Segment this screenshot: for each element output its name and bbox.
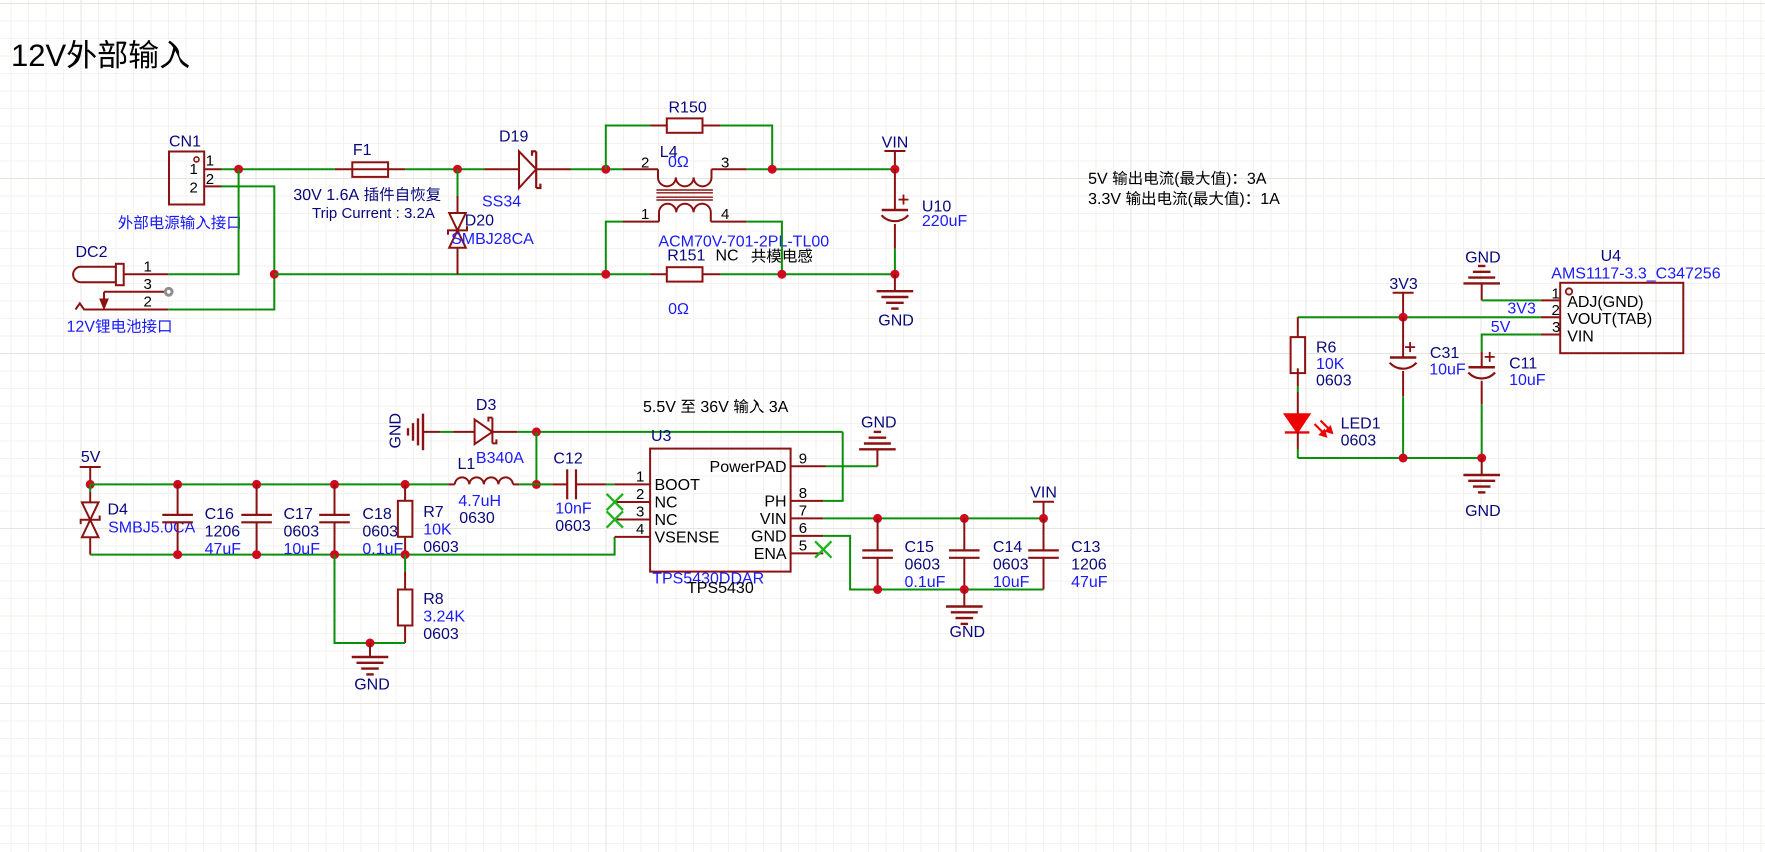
pin number 1 of L4 [641,206,649,223]
CN1 pin 1 [190,153,222,179]
value 0603 of R6 [1316,373,1352,390]
value SMBJ28CA [451,231,534,248]
svg-text:C18: C18 [362,506,391,523]
led LED1 [1285,414,1333,458]
svg-text:220uF: 220uF [922,213,968,230]
label U3 [651,428,672,445]
svg-text:ENA: ENA [754,546,787,563]
value 0603 of C15 [905,557,941,574]
svg-text:2: 2 [636,486,644,503]
svg-text:D19: D19 [499,129,528,146]
svg-text:R8: R8 [423,591,444,608]
svg-text:8: 8 [799,485,807,502]
U4 pin 3 VIN [1541,319,1594,346]
junction C15 bottom [873,585,882,594]
svg-text:0603: 0603 [555,518,591,535]
svg-text:GND: GND [354,677,390,694]
svg-text:10uF: 10uF [1509,372,1546,389]
svg-text:0.1uF: 0.1uF [362,541,403,558]
note 30V 1.6A 插件自恢复 [294,187,441,201]
wire R150 bypass loop [606,126,772,170]
label 外部电源输入接口 [118,215,240,229]
note 5V 输出电流(最大值)：3A [1089,171,1267,187]
value 10uF of C17 [284,541,321,558]
svg-text:9: 9 [799,450,807,467]
svg-text:VIN: VIN [760,511,787,528]
svg-text:10uF: 10uF [284,541,321,558]
svg-text:D3: D3 [476,397,497,414]
value 4.7uH [458,493,501,510]
capacitor U10 220uF polarized [882,169,909,272]
svg-text:0603: 0603 [362,524,398,541]
capacitor C14 [949,518,980,589]
junction C18 top [330,480,339,489]
op-amp U3 TPS5430 body [650,449,791,572]
junction 5V label [86,480,95,489]
wire CN1 pin1 to F1 [222,168,335,170]
value B340A [476,450,524,467]
connector DC2 barrel jack body [73,264,124,285]
label R150 [669,100,707,117]
label C14 [993,539,1022,556]
svg-text:1: 1 [206,153,214,170]
label DC2 [76,244,108,261]
label C18 [362,506,391,523]
svg-text:D4: D4 [108,502,129,519]
value 10nF [555,501,592,518]
U3 pin 9 PowerPAD [710,450,826,476]
label C31 [1430,345,1459,362]
svg-text:5V: 5V [81,449,101,466]
junction C13 top [1039,514,1048,523]
label C11 [1509,355,1537,372]
svg-text:C11: C11 [1509,355,1537,372]
ground above PowerPAD [859,432,896,466]
junction at CN1 pin1 [234,165,243,174]
svg-text:2: 2 [1552,302,1560,319]
svg-text:10nF: 10nF [555,501,592,518]
resistor R6 [1291,317,1306,414]
svg-text:F1: F1 [353,142,372,159]
value 0.1uF of C18 [362,541,403,558]
label TPS5430 [687,580,754,597]
ground below R8 [352,643,389,674]
svg-text:CN1: CN1 [169,134,201,151]
label F1 [353,142,372,159]
value 0603 of R7 [423,539,459,556]
svg-text:0603: 0603 [1341,433,1377,450]
svg-text:R7: R7 [423,504,444,521]
svg-text:SMBJ28CA: SMBJ28CA [451,231,534,248]
label C12 [553,451,582,468]
DC2 pin 2 spring contact [76,294,169,311]
junction R7 top [401,480,410,489]
junction at D20 top [453,165,462,174]
svg-text:3: 3 [144,276,152,293]
junction L1 output [532,480,541,489]
wire D19 to L4 [571,168,623,170]
U4 pin 1 ADJ [1541,286,1644,312]
label GND below C11 [1465,503,1501,520]
junction C14 bottom [960,585,969,594]
value 10uF of C31 [1429,362,1466,379]
net label VIN [882,135,909,170]
junction C18 bottom [330,550,339,559]
resistor R150 [650,118,720,132]
regulator U4 AMS1117 body [1560,283,1683,353]
svg-text:4: 4 [636,521,644,538]
junction PH node [532,427,541,436]
wire 5V rail [90,483,448,485]
ground at D3 anode [388,413,441,450]
value 10K of R6 [1316,356,1345,373]
svg-text:47uF: 47uF [205,541,242,558]
ground below C14 [946,590,983,624]
svg-text:2: 2 [144,294,152,311]
junction L4 pin1 bottom [601,270,610,279]
value 0.1uF of C15 [905,574,946,591]
label U10 [922,199,951,216]
svg-text:1: 1 [190,161,198,178]
svg-text:GND: GND [751,528,787,545]
svg-text:0603: 0603 [905,557,941,574]
value 1206 of C13 [1071,557,1107,574]
label GND at U10 [878,312,914,329]
U3 pin 5 ENA [754,537,832,563]
value SMBJ5.0CA [108,520,195,537]
pin number 3 of L4 [721,155,729,172]
junction at R150 right [768,165,777,174]
junction C14 top [960,514,969,523]
ground at U10 [877,274,914,308]
svg-text:0630: 0630 [459,510,495,527]
inductor L4 common-mode choke [623,169,747,221]
svg-text:1: 1 [1552,286,1560,303]
svg-text:0603: 0603 [284,524,320,541]
wire F1 to D19 [405,168,484,170]
U3 pin 4 VSENSE [615,521,720,546]
label L1 [458,456,476,473]
wire feedback rail [90,537,614,555]
svg-text:1206: 1206 [1071,557,1107,574]
svg-text:1: 1 [636,469,644,486]
label 12V锂电池接口 [68,319,171,333]
label U4 [1601,248,1622,265]
junction C16 bottom [173,550,182,559]
junction ground rail [366,639,375,648]
wire pin9 to ground [826,465,878,467]
svg-text:3V3: 3V3 [1507,301,1536,318]
label LED1 [1341,416,1381,433]
wire L4 top right to VIN [747,168,895,170]
svg-text:3V3: 3V3 [1389,276,1418,293]
label R8 [423,591,444,608]
junction at bottom rail x274 [270,270,279,279]
junction C15 top [873,514,882,523]
svg-text:2: 2 [190,179,198,196]
svg-text:VOUT(TAB): VOUT(TAB) [1567,311,1652,328]
junction C11 bottom [1477,454,1486,463]
label GND above U4 [1465,250,1501,267]
junction at VIN U10 [890,165,899,174]
label D3 [476,397,497,414]
wire L1 node to C12 [536,483,552,485]
wire C18 to ground rail [335,555,406,643]
wire bottom rail right segment [720,273,895,275]
U3 pin 7 VIN [760,502,823,528]
DC2 pin 3 with switch arrow [100,276,172,309]
value 0603 of C14 [993,557,1029,574]
svg-text:0Ω: 0Ω [668,301,689,318]
svg-text:10K: 10K [423,522,452,539]
junction C17 top [252,480,261,489]
resistor R8 [398,555,413,643]
capacitor C31 10uF polarized [1390,317,1417,458]
value 47uF of C13 [1071,574,1108,591]
connector CN1 body [169,152,204,205]
capacitor C17 [241,484,272,554]
svg-text:10K: 10K [1316,356,1345,373]
svg-text:GND: GND [1465,503,1501,520]
pin number 4 of L4 [721,206,729,223]
svg-text:AMS1117-3.3_C347256: AMS1117-3.3_C347256 [1551,266,1720,283]
svg-text:C16: C16 [205,506,234,523]
svg-text:ADJ(GND): ADJ(GND) [1567,294,1643,311]
label GND above PowerPAD [861,415,897,432]
junction C17 bottom [252,550,261,559]
svg-text:3.24K: 3.24K [423,609,465,626]
U4 pin 2 VOUT [1541,302,1652,328]
capacitor C13 [1028,518,1059,589]
fuse F1 [335,162,405,177]
svg-text:U4: U4 [1601,248,1622,265]
junction C16 top [173,480,182,489]
wire CN1 pin1 down to DC2 pin1 [168,169,238,274]
capacitor C11 10uF polarized [1468,352,1495,458]
note 5.5V 至 36V 输入 3A [644,399,789,413]
svg-text:L1: L1 [458,456,476,473]
junction 3V3 [1399,313,1408,322]
wire bottom rail left segment [274,273,650,275]
wire U4 pin3 to C11 [1482,335,1541,353]
svg-text:2: 2 [641,155,649,172]
wire PH down to pin 8 [823,432,842,501]
svg-text:3: 3 [1552,319,1560,336]
label C13 [1071,539,1100,556]
junction at R150 left [601,165,610,174]
svg-text:5V: 5V [1491,319,1511,336]
diode D4 SMBJ5.0CA TVS [81,484,100,554]
svg-text:C15: C15 [905,539,934,556]
value TPS5430DDAR [652,571,764,588]
svg-text:10uF: 10uF [1429,362,1466,379]
wire VIN rail [823,517,1043,519]
value 10uF of C14 [993,574,1030,591]
label R7 [423,504,444,521]
svg-text:1206: 1206 [205,524,241,541]
svg-text:0603: 0603 [1316,373,1352,390]
diode D19 SS34 [485,151,571,188]
svg-text:R151: R151 [667,248,705,265]
svg-text:VIN: VIN [1567,329,1594,346]
svg-text:NC: NC [655,495,678,512]
svg-text:R150: R150 [669,100,707,117]
wire L4 pin1 down [606,222,623,275]
inductor L1 4.7uH [448,477,536,484]
ground below C11 [1463,458,1500,492]
note Trip Current : 3.2A [312,205,435,222]
svg-text:C12: C12 [553,451,582,468]
svg-text:DC2: DC2 [76,244,108,261]
svg-text:VSENSE: VSENSE [655,529,720,546]
svg-text:C31: C31 [1430,345,1459,362]
svg-text:0603: 0603 [423,539,459,556]
svg-text:GND: GND [861,415,897,432]
svg-text:GND: GND [878,312,914,329]
svg-text:R6: R6 [1316,340,1337,357]
value 0603 of C17 [284,524,320,541]
value 0Ω R150 [668,154,689,171]
title text 12V外部输入 [13,40,189,69]
label C16 [205,506,234,523]
net name 3V3 on wire [1507,301,1536,318]
svg-text:PowerPAD: PowerPAD [710,459,787,476]
value SS34 [482,194,521,211]
wire U4 pin1 [1482,299,1541,301]
label L4 [660,144,678,161]
capacitor C15 [862,518,893,589]
value 0630 [459,510,495,527]
wire L4 pin4 down [747,222,782,275]
DC2 pin 1 [124,258,169,275]
label C15 [905,539,934,556]
svg-text:0.1uF: 0.1uF [905,574,946,591]
value 10uF of C11 [1509,372,1546,389]
label GND below R8 [354,677,390,694]
svg-text:VIN: VIN [1030,485,1057,502]
svg-text:C14: C14 [993,539,1022,556]
svg-text:4: 4 [721,206,729,223]
value 0Ω R151 [668,301,689,318]
resistor R7 [398,484,413,554]
svg-text:GND: GND [1465,250,1501,267]
net name 5V on wire [1491,319,1511,336]
value 47uF of C16 [205,541,242,558]
svg-text:B340A: B340A [476,450,524,467]
svg-text:VIN: VIN [882,135,909,152]
wire CN1 pin2 down [168,186,274,309]
diode D3 B340A [440,418,517,445]
svg-text:D20: D20 [465,213,494,230]
net label 3V3 [1389,276,1418,317]
svg-text:47uF: 47uF [1071,574,1108,591]
value 0603 of C18 [362,524,398,541]
net label 5V [80,449,101,484]
svg-text:NC: NC [716,248,739,265]
junction at U10 bottom [890,270,899,279]
CN1 pin 2 [190,171,222,197]
label CN1 [169,134,201,151]
value 0603 of R8 [423,626,459,643]
wire D3 to PH node [517,431,842,433]
svg-text:C13: C13 [1071,539,1100,556]
wire 3V3 rail [1298,316,1541,318]
junction C31 bottom [1399,454,1408,463]
label D20 [465,213,494,230]
value 1206 of C16 [205,524,241,541]
wire LED bottom rail [1298,457,1482,459]
svg-text:Trip Current : 3.2A: Trip Current : 3.2A [312,205,435,222]
capacitor C18 [319,484,350,554]
U3 pin 3 NC [607,504,678,530]
svg-text:LED1: LED1 [1341,416,1381,433]
svg-text:GND: GND [388,413,405,449]
svg-text:TPS5430: TPS5430 [687,580,754,597]
junction L4 pin4 bottom [777,270,786,279]
value 3.24K [423,609,465,626]
svg-text:5: 5 [799,537,807,554]
wire PH node down to L1 output [535,432,537,485]
value 0603 of C12 [555,518,591,535]
value ACM70V-701-2PL-TL00 [658,234,829,251]
svg-text:SS34: SS34 [482,194,521,211]
label GND below C14 [950,624,986,641]
resistor R151 [650,267,720,281]
svg-text:10uF: 10uF [993,574,1030,591]
svg-text:1: 1 [641,206,649,223]
svg-text:BOOT: BOOT [655,477,701,494]
wire pin6 to bottom rail [823,536,1043,590]
svg-text:0603: 0603 [993,557,1029,574]
U3 pin 6 GND [751,520,823,546]
net label VIN right [1030,485,1057,519]
capacitor C16 [162,484,193,554]
label D19 [499,129,528,146]
label R6 [1316,340,1337,357]
svg-text:C17: C17 [284,506,313,523]
svg-text:PH: PH [764,493,786,510]
svg-text:3: 3 [636,504,644,521]
U3 pin 2 NC [607,486,678,512]
svg-text:0603: 0603 [423,626,459,643]
svg-text:7: 7 [799,502,807,519]
junction R7 bottom [401,550,410,559]
svg-text:2: 2 [206,171,214,188]
label C17 [284,506,313,523]
diode D20 SMBJ28CA TVS [448,169,467,274]
svg-text:GND: GND [950,624,986,641]
svg-text:1: 1 [144,258,152,275]
value 0603 of LED1 [1341,433,1377,450]
note 3.3V 输出电流(最大值)：1A [1089,191,1280,207]
value AMS1117-3.3_C347256 [1551,266,1720,283]
svg-text:L4: L4 [660,144,678,161]
ground above U4 pin1 [1463,266,1500,300]
label R151 NC 共模电感 [667,248,812,265]
capacitor C12 10nF [553,469,615,499]
label D4 [108,502,129,519]
svg-text:U3: U3 [651,428,672,445]
U3 pin 1 BOOT [615,469,700,494]
value 220uF [922,213,968,230]
svg-text:6: 6 [799,520,807,537]
pin number 2 of L4 [641,155,649,172]
U3 pin 8 PH [764,485,823,511]
svg-text:3: 3 [721,155,729,172]
svg-text:NC: NC [655,512,678,529]
value 10K [423,522,452,539]
svg-text:4.7uH: 4.7uH [458,493,501,510]
